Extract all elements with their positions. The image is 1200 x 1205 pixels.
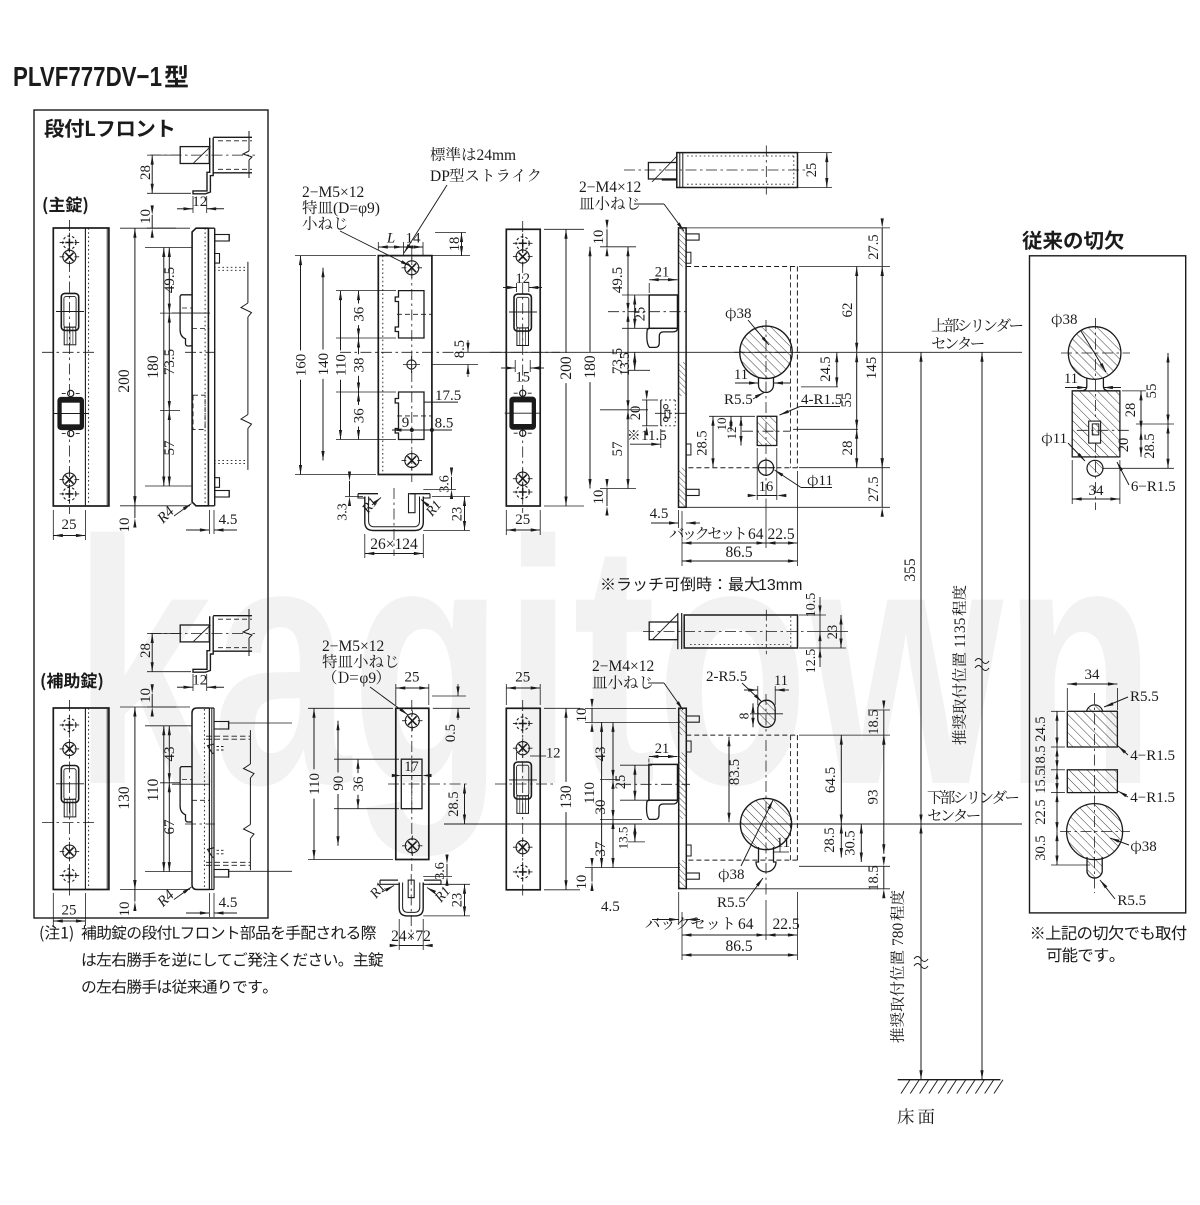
svg-text:86.5: 86.5 <box>725 938 752 955</box>
svg-text:57: 57 <box>162 440 178 456</box>
right box title <box>1022 230 1123 250</box>
label yukamen <box>898 1108 935 1124</box>
svg-text:10: 10 <box>591 230 607 245</box>
aux front dim 25 <box>53 893 85 926</box>
svg-text:34: 34 <box>1089 483 1105 499</box>
svg-text:93: 93 <box>866 790 882 805</box>
upper case dashed body <box>686 267 797 468</box>
upper case latch block <box>608 295 690 347</box>
svg-text:10: 10 <box>138 688 154 703</box>
aux side dim 12 <box>177 673 224 692</box>
upper case edge plate <box>679 228 687 507</box>
aux side latch profile <box>172 767 215 824</box>
label 2-M4x12 lower <box>592 658 684 711</box>
svg-text:64: 64 <box>738 916 754 933</box>
svg-text:145: 145 <box>864 357 880 380</box>
svg-text:55: 55 <box>839 393 855 408</box>
right bottom centerline <box>1060 693 1130 893</box>
right top phi38 circle <box>1061 318 1130 510</box>
backset 64 22.5 labels upper <box>670 471 798 548</box>
svg-text:4.5: 4.5 <box>601 899 620 915</box>
svg-text:2-R5.5: 2-R5.5 <box>706 669 747 685</box>
upper faceplate dim 25 <box>506 510 540 535</box>
svg-text:28: 28 <box>138 165 154 180</box>
dim 11 lower stem <box>774 835 790 852</box>
upper faceplate centerline <box>522 221 524 513</box>
right top hatched block <box>1072 391 1130 457</box>
svg-text:27.5: 27.5 <box>866 476 882 501</box>
main front screws <box>60 233 80 504</box>
svg-text:18.5: 18.5 <box>1033 745 1049 770</box>
lower spindle bar <box>643 610 812 655</box>
upper case right dims <box>686 218 890 516</box>
phi38 cylinder hole upper <box>734 320 800 500</box>
upper strike screws <box>402 258 422 471</box>
dim 355 <box>902 352 923 824</box>
backset lower <box>646 892 800 940</box>
watermark kagitown <box>73 470 1156 859</box>
upper faceplate deadbolt <box>505 390 541 436</box>
upper strike dim 17.5 <box>424 388 461 404</box>
label 2-M4x12 upper <box>579 179 685 232</box>
svg-text:2−M5×12: 2−M5×12 <box>322 638 384 655</box>
main front latch cutout <box>56 293 84 344</box>
upper case dim 4.5 <box>650 506 700 528</box>
main side plate <box>192 228 215 506</box>
lower strike dims 110 90 36 <box>307 708 399 859</box>
lower case dashed body <box>686 735 797 860</box>
label 2-M5x12 lower <box>322 638 409 716</box>
lower case dim 21 <box>649 741 678 763</box>
latch note <box>602 577 802 595</box>
upper strike cutout centers <box>397 314 432 416</box>
svg-text:10: 10 <box>117 902 133 917</box>
svg-text:26×124: 26×124 <box>370 536 418 553</box>
upper chain 10 49.5 73.5 57 10 <box>591 220 648 516</box>
svg-text:57: 57 <box>610 441 626 457</box>
main side deadbolt hidden <box>193 395 205 429</box>
phi11 hole upper <box>757 459 775 476</box>
svg-text:L: L <box>386 231 395 247</box>
upper case dim 13.5 <box>617 352 650 376</box>
svg-text:13.5: 13.5 <box>617 352 632 376</box>
main side R4 label <box>154 502 193 527</box>
svg-text:10: 10 <box>117 518 133 533</box>
svg-text:21: 21 <box>655 265 670 281</box>
lower strike dim 28.5 <box>446 784 466 824</box>
svg-text:20: 20 <box>1116 438 1132 453</box>
lower faceplate latch <box>509 762 537 813</box>
main side latch profile <box>172 295 215 353</box>
svg-text:4.5: 4.5 <box>650 506 669 522</box>
svg-text:200: 200 <box>116 369 133 393</box>
main side dim 12 <box>177 194 224 213</box>
svg-text:180: 180 <box>582 355 599 379</box>
label dantsuki-L-front <box>45 119 174 138</box>
svg-text:8.5: 8.5 <box>452 340 468 358</box>
lower case dim 4.5 <box>601 892 700 925</box>
svg-text:64: 64 <box>748 526 764 543</box>
svg-text:25: 25 <box>804 163 820 178</box>
aux front screws <box>60 715 80 885</box>
upper case screw posts <box>686 234 699 496</box>
upper faceplate screws <box>513 234 533 267</box>
title PLVF777DV-1 <box>13 61 188 92</box>
svg-text:38: 38 <box>737 306 752 322</box>
svg-text:13mm: 13mm <box>758 577 802 594</box>
svg-text:R5.5: R5.5 <box>1130 689 1159 705</box>
svg-text:355: 355 <box>902 558 919 582</box>
upper faceplate dim 12 <box>503 271 542 292</box>
svg-text:30.5: 30.5 <box>1033 835 1049 860</box>
upper cylinder center line <box>456 351 1022 353</box>
right bottom block1 <box>1067 711 1117 747</box>
svg-text:28: 28 <box>1123 403 1139 418</box>
main side dim 4.5 <box>186 510 237 534</box>
upper strike cross-section cup <box>358 488 430 556</box>
svg-text:28.5: 28.5 <box>446 791 462 816</box>
svg-text:12.5: 12.5 <box>804 649 819 674</box>
main front centerline <box>68 220 70 514</box>
svg-text:200: 200 <box>558 356 575 380</box>
upper case dim 11.5 <box>629 428 667 448</box>
right bottom 4-R1.5 label a <box>1117 745 1175 764</box>
svg-text:49.5: 49.5 <box>162 267 178 293</box>
aux side bracket detail <box>150 609 255 672</box>
upper case dim 21 <box>649 265 677 294</box>
aux side dims 130 110 <box>116 707 190 890</box>
aux front plate outline <box>53 708 109 890</box>
dim 86.5 lower <box>682 938 797 960</box>
upper strike center cross line <box>340 351 456 353</box>
svg-text:2−M4×12: 2−M4×12 <box>592 658 654 675</box>
main side bracket detail <box>150 131 255 194</box>
label 2-M5x12 tokusara koneji <box>302 184 411 267</box>
cup dim 3.3 <box>336 472 364 521</box>
lower faceplate screws <box>513 714 533 882</box>
svg-text:R5.5: R5.5 <box>724 392 753 408</box>
svg-text:0.5: 0.5 <box>443 724 459 742</box>
svg-text:22.5: 22.5 <box>767 526 794 543</box>
upper strike mid hole <box>403 356 420 373</box>
label shujou (main lock) <box>43 197 87 215</box>
svg-text:49.5: 49.5 <box>610 267 626 293</box>
svg-text:36: 36 <box>351 776 367 792</box>
svg-text:55: 55 <box>1144 384 1160 399</box>
lower faceplate center cross <box>495 783 556 785</box>
svg-text:140: 140 <box>316 353 332 376</box>
main front dim 25 <box>53 510 85 540</box>
svg-text:10: 10 <box>574 708 590 723</box>
svg-text:24×72: 24×72 <box>391 928 431 945</box>
cup R1 labels <box>359 495 445 520</box>
label hyojun 24mm DP strike <box>403 147 540 254</box>
right box frame <box>1030 256 1186 913</box>
upper strike centerline <box>411 248 413 482</box>
svg-text:38: 38 <box>1142 839 1157 855</box>
svg-text:10.5: 10.5 <box>804 593 819 618</box>
svg-text:38: 38 <box>730 867 745 883</box>
aux side dim 10 top <box>138 684 176 716</box>
upper strike dim 18 <box>432 233 470 256</box>
keyhole oval 2-R5.5 <box>750 694 783 733</box>
svg-text:3.3: 3.3 <box>336 503 351 521</box>
main side screw posts <box>215 234 230 498</box>
svg-text:23: 23 <box>825 625 841 640</box>
aux side dim 10 bottom <box>117 880 137 917</box>
aux side plate <box>192 708 214 890</box>
svg-text:(D=φ9): (D=φ9) <box>333 200 380 217</box>
aux front latch cutout <box>56 766 84 817</box>
svg-text:15: 15 <box>515 370 530 386</box>
right top dim 11 <box>1064 371 1121 389</box>
svg-text:12: 12 <box>192 673 207 689</box>
svg-text:780: 780 <box>890 923 907 947</box>
aux side door edge <box>206 730 254 870</box>
main side dim 10 bottom <box>117 496 137 532</box>
lower case screw posts <box>686 716 699 879</box>
dim suishou 780 <box>890 824 928 1080</box>
svg-text:30.5: 30.5 <box>843 830 859 855</box>
lower case dim 83.5 <box>727 737 743 823</box>
upper spindle bar <box>624 146 806 195</box>
left box frame <box>34 110 268 918</box>
svg-text:1135: 1135 <box>952 617 969 648</box>
right top 6-R1.5 label <box>1116 461 1176 495</box>
svg-text:23: 23 <box>450 507 466 522</box>
svg-text:62: 62 <box>840 303 856 318</box>
svg-text:24mm: 24mm <box>477 147 517 164</box>
lower cylinder center line <box>444 823 1022 825</box>
aux front center cross <box>42 822 97 824</box>
svg-text:130: 130 <box>116 786 133 810</box>
svg-text:110: 110 <box>334 354 350 376</box>
lower faceplate dim 25 top <box>506 670 540 706</box>
main side dim 28 <box>138 155 191 193</box>
hatched square upper <box>742 416 790 445</box>
right bottom 4-R1.5 label b <box>1117 790 1175 806</box>
right top phi11 label <box>1042 431 1086 462</box>
svg-text:36: 36 <box>352 306 368 322</box>
svg-text:25: 25 <box>62 903 77 919</box>
svg-text:67: 67 <box>162 819 178 835</box>
svg-text:25: 25 <box>515 512 530 528</box>
svg-text:11: 11 <box>819 473 833 489</box>
svg-text:8.5: 8.5 <box>435 416 454 432</box>
right bottom left dims chain <box>1033 711 1090 865</box>
svg-text:4−R1.5: 4−R1.5 <box>1130 748 1175 764</box>
svg-text:110: 110 <box>307 773 323 795</box>
label hojojou (aux lock) <box>41 673 102 691</box>
phi38 label upper <box>726 306 771 346</box>
svg-text:4.5: 4.5 <box>219 512 238 528</box>
lower strike dim 0.5 <box>432 684 470 742</box>
aux side R4 label <box>154 886 193 911</box>
svg-text:6−R1.5: 6−R1.5 <box>1131 479 1176 495</box>
right top stem <box>1072 378 1120 391</box>
svg-text:2−M5×12: 2−M5×12 <box>302 184 364 201</box>
right bottom block2 <box>1067 770 1117 793</box>
dim 11 oval <box>744 673 789 705</box>
main front plate outline <box>53 228 109 506</box>
svg-text:11: 11 <box>734 367 748 383</box>
label 2-R5.5 <box>706 669 763 703</box>
upper faceplate outline <box>506 229 540 506</box>
svg-text:11.5: 11.5 <box>641 428 667 444</box>
upper faceplate latch <box>509 294 537 345</box>
svg-text:18: 18 <box>447 237 463 252</box>
svg-text:27.5: 27.5 <box>866 234 882 259</box>
right bottom phi38 label <box>1109 836 1156 855</box>
right top phi38 label <box>1052 312 1108 373</box>
svg-text:25: 25 <box>613 775 629 790</box>
right box note <box>1032 925 1187 962</box>
svg-text:28: 28 <box>138 643 154 658</box>
dim 11 stem upper <box>734 367 790 385</box>
lower strike cup <box>380 874 441 940</box>
svg-text:11: 11 <box>1064 371 1078 387</box>
svg-text:160: 160 <box>294 354 310 377</box>
cup dims 3.6 23 <box>423 468 470 531</box>
upper case dim 25 latch <box>622 295 655 328</box>
svg-text:21: 21 <box>655 741 670 757</box>
svg-text:30: 30 <box>593 800 609 815</box>
svg-text:12: 12 <box>546 746 561 762</box>
phi11 label upper <box>774 469 833 489</box>
lower spindle dims 10.5 23 12.5 <box>799 593 848 674</box>
svg-text:10: 10 <box>138 209 154 224</box>
lower strike latch centerline <box>388 783 470 785</box>
svg-text:2−M4×12: 2−M4×12 <box>579 179 641 196</box>
right bottom R5.5 label <box>1099 879 1146 909</box>
svg-text:22.5: 22.5 <box>772 916 799 933</box>
right top phi11 <box>1087 460 1103 476</box>
lower strike outline <box>396 708 429 859</box>
svg-text:17.5: 17.5 <box>435 388 461 404</box>
right top dim 34 <box>1072 460 1120 504</box>
svg-text:11: 11 <box>776 835 790 851</box>
svg-text:22.5: 22.5 <box>1033 799 1049 824</box>
svg-text:25: 25 <box>515 670 530 686</box>
right bottom dim 34 <box>1067 667 1117 710</box>
main side dim 10 top <box>138 205 176 237</box>
upper strike dims left 160 140 110 36 38 36 <box>294 256 397 475</box>
svg-text:28.5: 28.5 <box>1142 433 1158 458</box>
lower cup dims 3.6 23 R1 <box>367 855 470 916</box>
lower strike dim 25 top <box>396 670 429 706</box>
upper case deadbolt tongue <box>655 400 690 426</box>
R5.5 label lower <box>717 877 764 911</box>
upper faceplate dim 15 <box>501 360 544 386</box>
svg-text:18.5: 18.5 <box>866 709 882 734</box>
svg-text:110: 110 <box>145 778 162 801</box>
svg-text:28.5: 28.5 <box>695 430 711 455</box>
upper spindle dim 25 <box>798 153 833 188</box>
upper strike latch cutout <box>395 291 424 338</box>
lower faceplate dim 12 <box>517 746 561 762</box>
right bottom phi38 <box>1067 804 1123 878</box>
aux front centerline <box>68 700 70 897</box>
svg-text:11: 11 <box>1053 431 1067 447</box>
svg-text:130: 130 <box>558 785 575 809</box>
svg-text:10: 10 <box>591 490 607 505</box>
4-R1.5 label upper <box>779 392 842 416</box>
upper faceplate dims 200 180 right <box>544 229 599 506</box>
upper strike deadbolt cutout <box>395 392 424 440</box>
svg-text:11: 11 <box>774 673 788 689</box>
main side door edge <box>214 262 252 470</box>
svg-text:24.5: 24.5 <box>1033 716 1049 741</box>
svg-text:14: 14 <box>406 231 422 247</box>
svg-text:R5.5: R5.5 <box>717 895 746 911</box>
svg-text:17: 17 <box>404 759 419 775</box>
lower strike dim 17 <box>392 759 432 777</box>
svg-text:180: 180 <box>145 355 162 379</box>
svg-text:24.5: 24.5 <box>818 356 834 381</box>
lower strike centerline <box>411 700 413 871</box>
upper faceplate screws bottom <box>513 469 533 502</box>
svg-text:12: 12 <box>192 194 207 210</box>
svg-text:12: 12 <box>724 427 739 440</box>
svg-text:73.5: 73.5 <box>162 349 178 375</box>
svg-text:10: 10 <box>574 875 590 890</box>
aux side chain 43 67 <box>145 726 192 872</box>
lower case latch block <box>620 764 690 819</box>
lower strike screws <box>402 711 422 857</box>
svg-text:38: 38 <box>352 358 368 373</box>
svg-text:28.5: 28.5 <box>822 827 838 852</box>
dim 8 oval <box>737 703 755 727</box>
svg-text:37: 37 <box>593 841 609 857</box>
dims 12 10 28.5 left of square <box>695 416 756 467</box>
lower faceplate dim 130 <box>544 708 580 890</box>
lower cup dim 24x72 <box>390 919 433 950</box>
svg-text:4.5: 4.5 <box>219 895 238 911</box>
svg-text:18.5: 18.5 <box>866 865 882 890</box>
svg-text:13.5: 13.5 <box>616 827 631 850</box>
main side dims 200 180 chain <box>116 228 190 506</box>
upper case dim 20 <box>628 391 658 436</box>
cup dim 26x124 <box>365 534 424 558</box>
right top dims 28 20 55 28.5 <box>1103 353 1174 468</box>
main side chain 49.5 73.5 57 <box>145 248 192 487</box>
svg-text:PLVF777DV−1: PLVF777DV−1 <box>13 61 162 92</box>
dim suishou 1135 <box>952 352 989 1079</box>
svg-text:16: 16 <box>759 479 774 495</box>
svg-text:φ9: φ9 <box>359 670 376 687</box>
svg-text:90: 90 <box>331 776 347 791</box>
right bottom bump top <box>1087 705 1103 711</box>
svg-text:64.5: 64.5 <box>823 767 839 793</box>
aux side dim 28 <box>138 634 191 672</box>
upper faceplate center cross <box>490 351 560 353</box>
dim 16 upper <box>748 448 787 500</box>
upper strike dim 8.5 right <box>432 340 478 377</box>
svg-text:20: 20 <box>628 406 644 421</box>
svg-text:34: 34 <box>1085 667 1101 683</box>
svg-text:4−R1.5: 4−R1.5 <box>1130 790 1175 806</box>
svg-text:25: 25 <box>405 670 420 686</box>
label kabu cylinder center <box>928 790 1019 822</box>
svg-text:R5.5: R5.5 <box>1117 893 1146 909</box>
dim 86.5 upper <box>682 544 797 566</box>
right bottom R5.5 top label <box>1103 689 1158 709</box>
svg-text:43: 43 <box>593 747 609 762</box>
svg-text:36: 36 <box>352 408 368 424</box>
floor line <box>898 1080 1003 1094</box>
svg-text:DP: DP <box>430 168 450 185</box>
phi38 label lower <box>719 799 775 883</box>
